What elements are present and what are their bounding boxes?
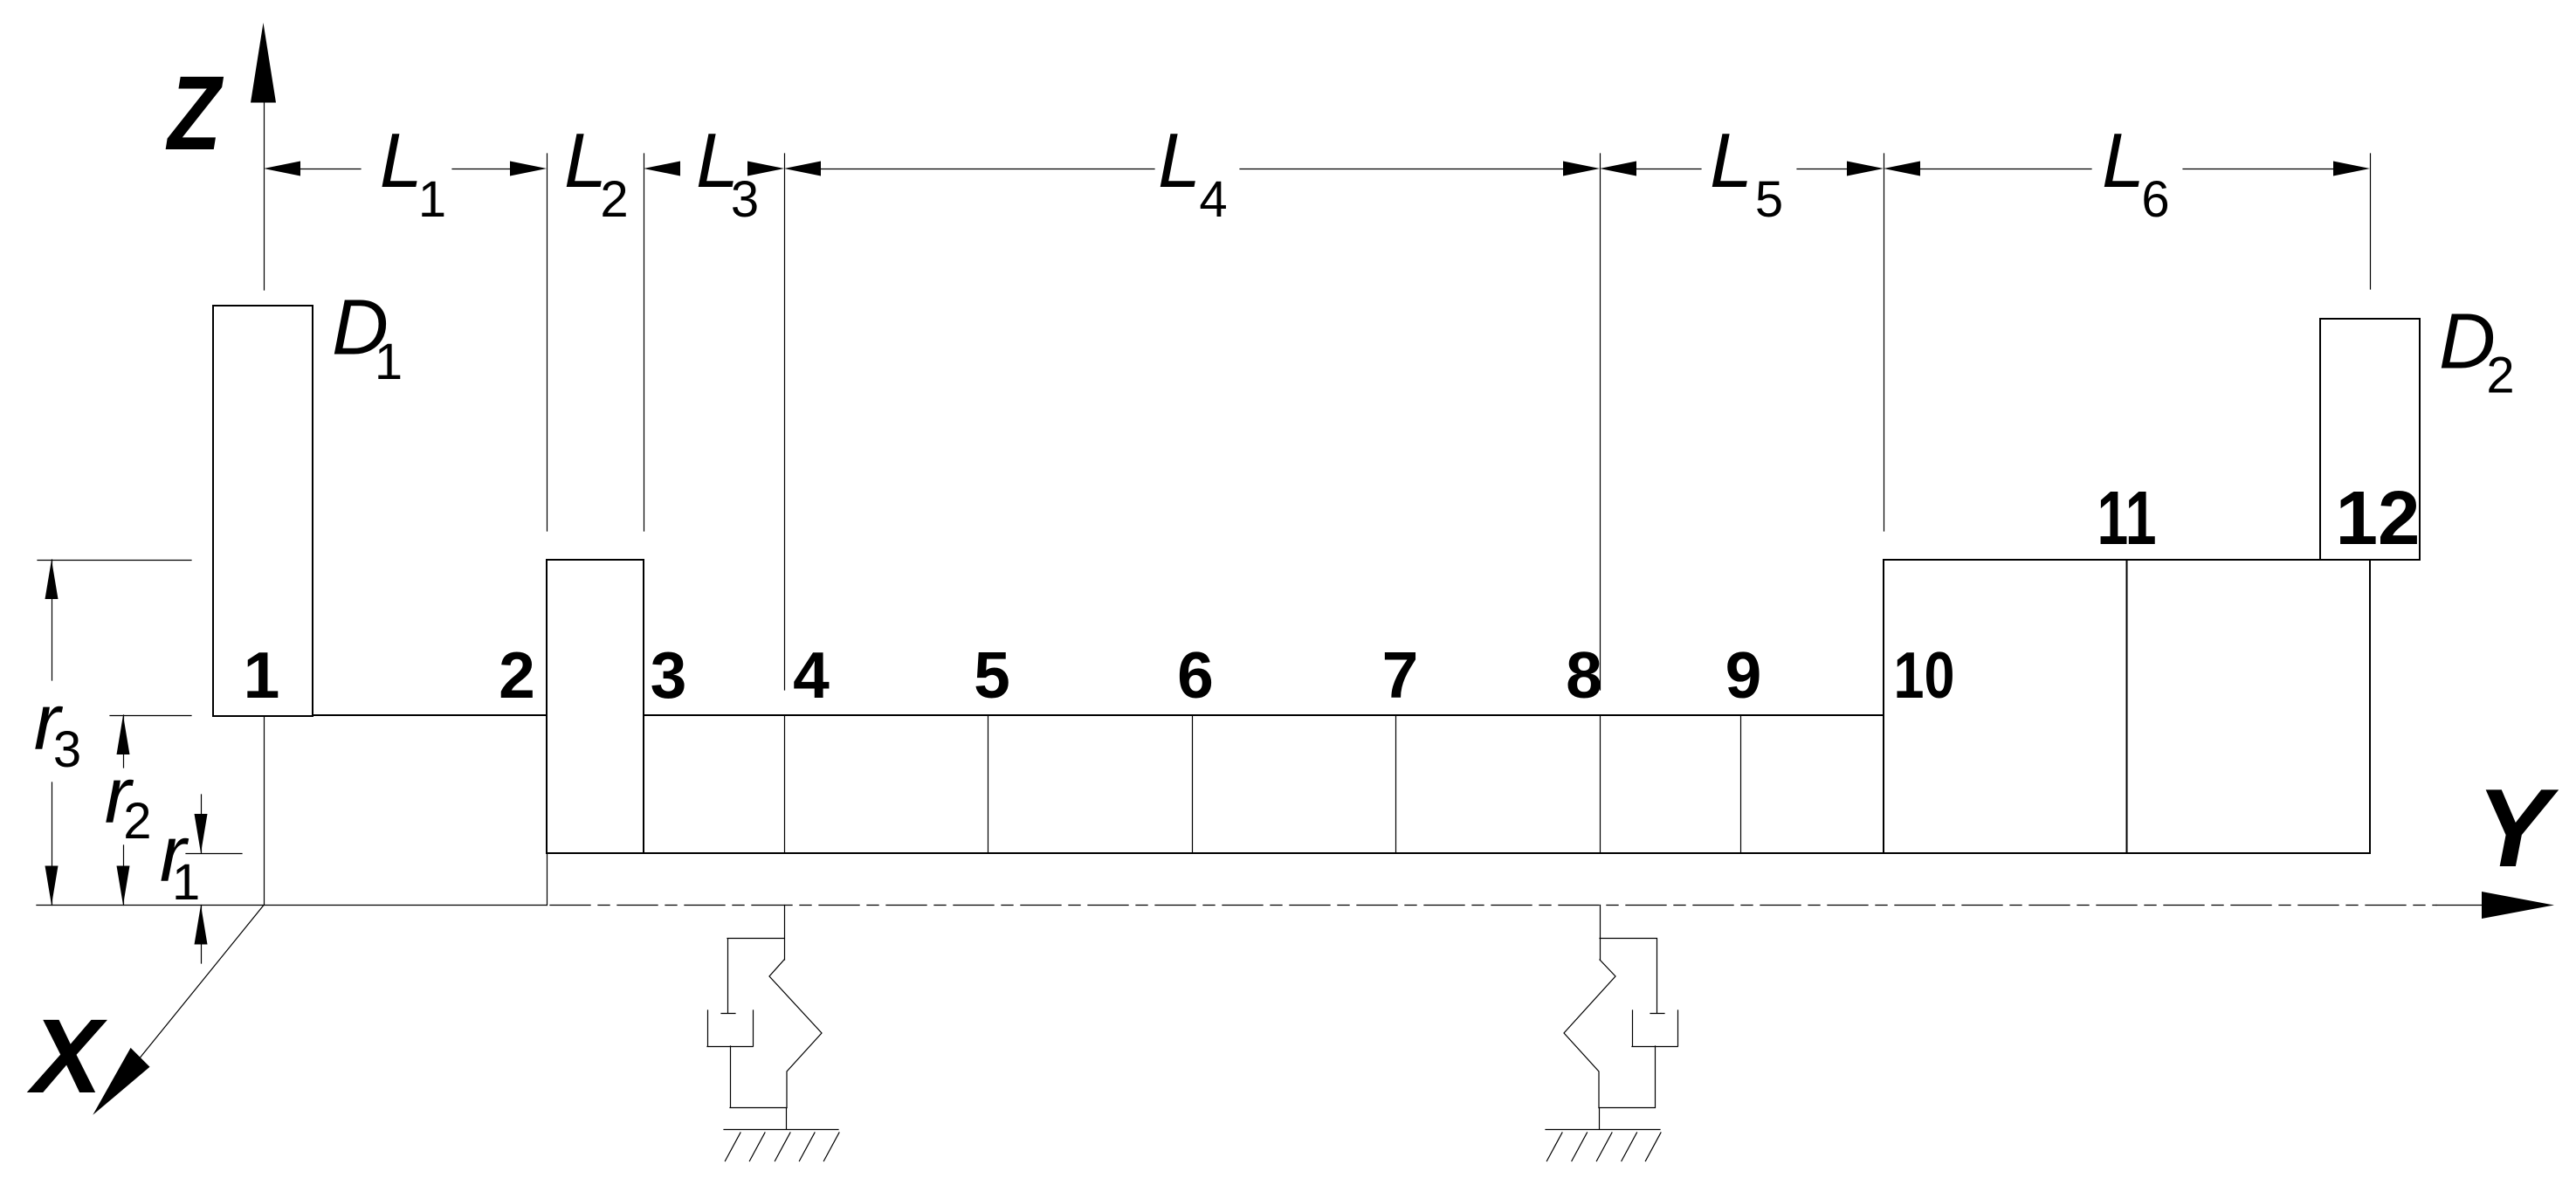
svg-text:8: 8 xyxy=(1566,638,1602,712)
svg-text:5: 5 xyxy=(974,638,1010,712)
svg-text:L: L xyxy=(380,117,423,203)
svg-text:2: 2 xyxy=(600,171,628,228)
svg-text:3: 3 xyxy=(53,721,81,778)
svg-text:4: 4 xyxy=(793,638,830,712)
svg-text:7: 7 xyxy=(1382,638,1419,712)
svg-text:Y: Y xyxy=(2476,766,2559,890)
svg-text:Z: Z xyxy=(166,53,224,172)
svg-text:1: 1 xyxy=(418,171,446,228)
svg-text:4: 4 xyxy=(1199,171,1227,228)
svg-text:2: 2 xyxy=(499,638,535,712)
svg-text:X: X xyxy=(26,996,107,1115)
svg-text:1: 1 xyxy=(244,638,280,712)
svg-text:3: 3 xyxy=(731,171,759,228)
svg-text:12: 12 xyxy=(2336,476,2421,561)
svg-text:6: 6 xyxy=(2141,171,2169,228)
svg-text:3: 3 xyxy=(651,638,687,712)
svg-text:2: 2 xyxy=(123,793,151,850)
svg-text:6: 6 xyxy=(1177,638,1214,712)
svg-text:9: 9 xyxy=(1725,638,1762,712)
svg-text:10: 10 xyxy=(1894,638,1955,712)
svg-text:L: L xyxy=(1710,117,1753,203)
svg-text:1: 1 xyxy=(375,334,403,390)
svg-text:5: 5 xyxy=(1755,171,1783,228)
svg-text:11: 11 xyxy=(2097,476,2157,561)
svg-text:L: L xyxy=(1158,117,1201,203)
svg-text:2: 2 xyxy=(2486,348,2514,404)
svg-text:L: L xyxy=(2102,117,2145,203)
svg-text:1: 1 xyxy=(172,854,200,911)
